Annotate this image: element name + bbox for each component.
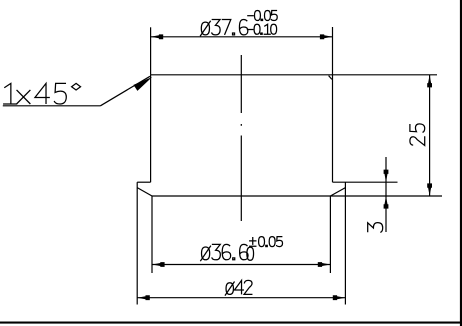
leader arrowhead pointing at chamfered corner <box>133 77 152 91</box>
arrowhead upper of dim 3 (points down) <box>384 170 389 183</box>
tolerance text +-0.05 <box>249 237 256 246</box>
drawing frame border right <box>460 0 462 326</box>
part outline: flange bottom chamfer right <box>330 188 345 196</box>
arrowhead lower of dim 3 (points up) <box>384 196 389 209</box>
arrowhead right of O37.6 dim <box>320 34 333 39</box>
part outline: flange left wall + extension line for O42 <box>136 182 138 304</box>
drawing frame border bottom <box>0 322 462 324</box>
extension line right for O36.6 <box>329 196 331 273</box>
part outline: left wall of O37.6 body <box>150 75 152 182</box>
dimension text 3 (rotated 90) <box>368 223 383 233</box>
dimension line O42 <box>137 297 345 299</box>
part outline: top face of O37.6 cylinder <box>151 74 333 76</box>
dimension line 25 <box>429 75 431 196</box>
dimension line 3 (arrows outside) <box>385 157 387 232</box>
arrowhead right of O36.6 dim <box>318 262 331 267</box>
dimension text O42 <box>225 282 235 296</box>
part outline: right wall of O37.6 body <box>332 75 334 182</box>
dimension line O36.6 <box>152 264 330 266</box>
arrowhead left of O42 dim <box>137 295 150 300</box>
arrowhead top of dim 25 <box>427 75 432 88</box>
arrowhead right of O42 dim <box>333 295 346 300</box>
leader underline of chamfer note <box>3 105 101 107</box>
dimension text 25 (rotated 90) <box>410 124 425 146</box>
extension line right for O37.6 <box>332 27 334 75</box>
leader line of chamfer note <box>100 76 150 106</box>
dimension line O37.6 <box>151 36 333 38</box>
arrowhead left of O37.6 dim <box>151 34 164 39</box>
tolerance text -0.10 (lower) <box>247 29 254 31</box>
extension line top for dim 25 <box>333 74 438 76</box>
part outline: flange top face right step + extension line for dim 3 <box>333 181 398 183</box>
part outline: bottom face + extension line for dims 3 and 25 <box>152 195 442 197</box>
extension line left for O36.6 <box>151 196 153 273</box>
part outline: flange top face left step <box>137 181 150 183</box>
tolerance text -0.05 (upper) <box>247 15 254 17</box>
chamfer edge tick at top-right corner <box>329 76 332 80</box>
dimension text O37.6 <box>200 21 211 37</box>
part outline: flange right wall + extension line for O42 <box>344 182 346 304</box>
chamfer note text 1x45deg <box>3 83 17 104</box>
part outline: flange bottom chamfer left <box>137 188 152 196</box>
dimension text trailing 0 of O36.60 <box>247 247 254 260</box>
arrowhead left of O36.6 dim <box>152 262 165 267</box>
arrowhead bottom of dim 25 <box>427 183 432 196</box>
center line (dash-dot) <box>240 55 242 113</box>
extension line left for O37.6 <box>150 27 152 75</box>
dimension text O36.6 <box>200 246 211 262</box>
